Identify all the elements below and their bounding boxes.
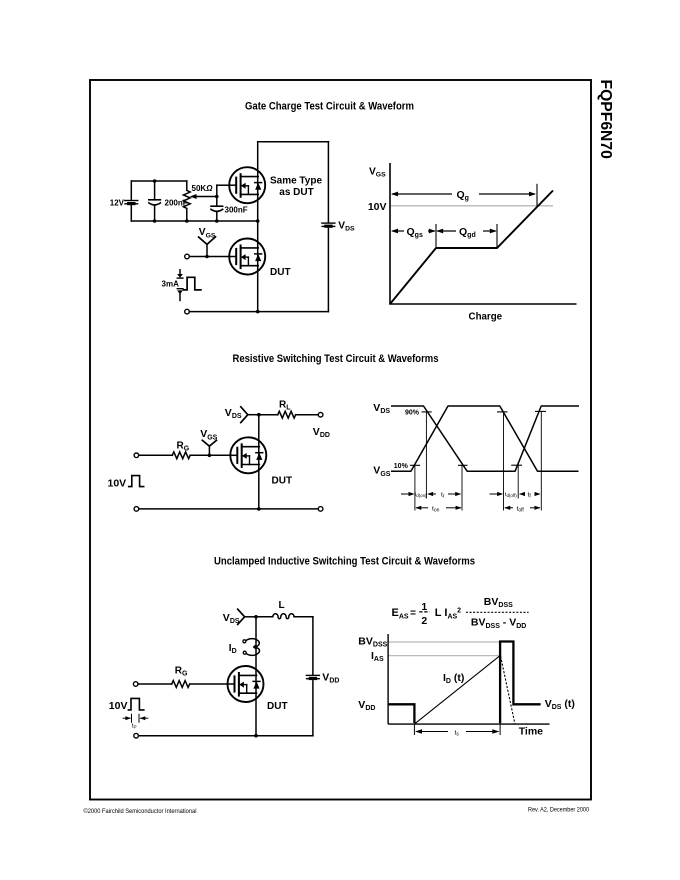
resistor RL xyxy=(278,411,296,418)
transistor M3 DUT xyxy=(230,437,266,473)
wire 300nF branch lower xyxy=(216,212,218,221)
probe VDS antenna xyxy=(241,407,248,423)
svg-text:VDD: VDD xyxy=(322,671,339,684)
terminal bottom left xyxy=(134,507,139,512)
probe VDS antenna xyxy=(238,609,245,624)
axis X xyxy=(389,303,576,305)
battery V1 12V xyxy=(125,201,138,206)
svg-text:ID: ID xyxy=(229,643,237,655)
svg-text:1: 1 xyxy=(421,601,427,613)
svg-text:10V: 10V xyxy=(109,700,128,712)
svg-text:VDS: VDS xyxy=(225,407,242,420)
arrow tf xyxy=(520,493,525,495)
svg-text:VDS: VDS xyxy=(223,612,240,625)
marker line m6 xyxy=(540,411,542,510)
svg-text:Rev. A2, December 2000: Rev. A2, December 2000 xyxy=(528,807,589,814)
node top of 200nF xyxy=(153,179,157,183)
tick 10pc left xyxy=(410,464,420,466)
svg-text:RG: RG xyxy=(175,666,188,678)
waveform 10V gate pulse xyxy=(128,698,143,710)
node drain top xyxy=(254,615,258,619)
curve ID ramp xyxy=(414,656,500,725)
battery V3 VDD xyxy=(306,675,319,680)
node drain xyxy=(257,413,261,417)
current marker top arrow xyxy=(179,270,181,275)
wire gate DUT xyxy=(189,256,229,258)
svg-text:Qgd: Qgd xyxy=(459,226,476,239)
svg-text:VDD: VDD xyxy=(313,426,330,439)
pot wiper arrow xyxy=(190,194,197,199)
capacitor C1 200nF xyxy=(149,200,161,205)
waveform 3mA gate pulse xyxy=(183,277,201,290)
svg-text:VDS: VDS xyxy=(338,220,355,232)
node bus bottom xyxy=(256,310,260,314)
svg-text:VDD: VDD xyxy=(358,699,375,712)
wire drain bus xyxy=(257,142,259,312)
arrow tp left xyxy=(123,717,130,719)
page frame xyxy=(90,80,591,800)
terminal gate input xyxy=(134,453,139,458)
tick 90pc left xyxy=(422,411,432,413)
wire 300nF branch upper xyxy=(216,197,218,207)
svg-text:as DUT: as DUT xyxy=(279,187,313,198)
tick Qgs xyxy=(435,224,437,247)
axis Y xyxy=(387,634,389,724)
svg-text:tf: tf xyxy=(528,492,532,500)
wire 12V branch upper xyxy=(130,181,132,200)
svg-text:VDS: VDS xyxy=(373,402,390,415)
node bottom rail to bus xyxy=(256,219,260,223)
axis X xyxy=(388,723,549,725)
node bottom pot xyxy=(185,219,189,223)
trace VDS top1 xyxy=(391,406,579,471)
svg-text:VGS: VGS xyxy=(369,166,386,178)
svg-text:L IAS2: L IAS2 xyxy=(435,607,461,620)
gridline 10V gray xyxy=(390,205,553,207)
wire top rail to VDS branch xyxy=(258,141,329,143)
probe VGS antenna xyxy=(199,237,216,245)
svg-text:td(off): td(off) xyxy=(505,492,517,498)
wire 200nF branch upper xyxy=(154,181,156,200)
transistor M1 Same Type as DUT xyxy=(229,167,265,203)
wire bottom rail xyxy=(138,735,313,737)
terminal VDD xyxy=(318,412,323,417)
node bus bottom xyxy=(257,507,261,511)
trace VDS thick xyxy=(388,704,414,723)
wire RG to gate xyxy=(190,683,228,685)
tick Qgd xyxy=(496,224,498,247)
svg-text:Charge: Charge xyxy=(469,311,503,323)
terminal gate xyxy=(185,254,190,259)
svg-text:L: L xyxy=(279,600,285,611)
probe ID current loop xyxy=(245,639,259,647)
gridline BVDSS gray xyxy=(388,641,500,643)
arrow tr xyxy=(428,493,436,495)
wire right branch lower xyxy=(312,681,314,736)
svg-text:Same Type: Same Type xyxy=(270,176,322,187)
tick tp right xyxy=(138,714,140,722)
wire bottom rail xyxy=(139,508,319,510)
arrow into td(on) xyxy=(401,493,414,495)
node bus bottom xyxy=(254,734,258,738)
wire drain bus xyxy=(258,415,260,509)
tick Qg end xyxy=(536,184,538,206)
svg-text:DUT: DUT xyxy=(272,476,293,487)
curve ID fall dashed xyxy=(501,656,515,724)
node wiper corner xyxy=(215,195,219,199)
svg-text:ID (t): ID (t) xyxy=(443,672,464,685)
node bottom 200nF xyxy=(153,219,157,223)
svg-text:IAS: IAS xyxy=(371,650,384,663)
svg-text:Gate Charge Test Circuit & Wav: Gate Charge Test Circuit & Waveform xyxy=(245,101,414,113)
arrow Qg xyxy=(392,193,452,195)
svg-text:EAS=: EAS= xyxy=(392,607,417,620)
svg-text:90%: 90% xyxy=(405,410,420,417)
tick tp left xyxy=(131,714,133,722)
wire gate input to RG xyxy=(139,454,173,456)
marker ts right xyxy=(499,656,501,735)
wire RL to VDD terminal xyxy=(296,414,319,416)
svg-text:Qg: Qg xyxy=(457,189,469,202)
arrow Qgs xyxy=(392,230,404,232)
svg-text:ts: ts xyxy=(455,730,460,738)
waveform 10V gate pulse xyxy=(129,476,144,487)
terminal bottom left xyxy=(134,733,139,738)
wire VDS branch upper xyxy=(327,142,329,223)
arrow tp right xyxy=(141,717,148,719)
svg-text:BVDSS: BVDSS xyxy=(484,596,513,609)
wire node to inductor xyxy=(256,616,273,618)
arrow into td(off) xyxy=(490,493,503,495)
tick 10pc mid xyxy=(458,464,468,466)
trace VGS xyxy=(391,406,579,471)
svg-text:VDS (t): VDS (t) xyxy=(545,698,575,711)
gridline IAS gray xyxy=(388,655,500,657)
svg-text:©2000 Fairchild Semiconductor: ©2000 Fairchild Semiconductor Internatio… xyxy=(84,808,197,815)
svg-text:RG: RG xyxy=(177,441,190,453)
arrow Qgd xyxy=(437,230,456,232)
svg-text:BVDSS: BVDSS xyxy=(358,636,387,649)
wire RG to gate xyxy=(190,454,230,456)
wire inductor to right branch xyxy=(294,616,313,618)
svg-text:FQPF6N70: FQPF6N70 xyxy=(597,80,614,160)
svg-text:toff: toff xyxy=(517,506,525,514)
svg-text:BVDSS - VDD: BVDSS - VDD xyxy=(471,617,526,630)
equation fraction line dashed xyxy=(466,611,529,613)
wire corner up xyxy=(216,185,218,196)
svg-text:RL: RL xyxy=(279,400,291,412)
svg-text:Time: Time xyxy=(519,726,543,738)
svg-text:Qgs: Qgs xyxy=(407,226,423,239)
wire wiper to corner xyxy=(196,196,217,198)
wire 200nF branch lower xyxy=(154,205,156,221)
svg-text:DUT: DUT xyxy=(270,267,291,278)
svg-text:50KΩ: 50KΩ xyxy=(192,184,214,193)
marker line m1 xyxy=(414,465,416,510)
tick 90pc mid xyxy=(497,411,508,413)
inductor L xyxy=(273,614,294,619)
resistor RG xyxy=(172,452,190,459)
svg-text:td(on): td(on) xyxy=(415,492,427,498)
marker line m4 xyxy=(503,412,505,511)
wire bottom return xyxy=(187,311,328,313)
node VGS tap xyxy=(205,255,209,259)
battery V2 VDS xyxy=(322,223,335,228)
node VGS tap xyxy=(208,454,212,458)
wire top rail left block xyxy=(131,180,187,182)
wire 12V branch lower xyxy=(130,206,132,221)
wire VDS branch lower xyxy=(327,228,329,311)
marker line m2 xyxy=(425,412,427,499)
terminal bottom left xyxy=(185,309,190,314)
terminal bottom right xyxy=(318,507,323,512)
wire gate input to RG xyxy=(138,683,172,685)
curve gate charge xyxy=(390,191,553,305)
node bottom 300nF xyxy=(215,219,219,223)
wire corner to gate M1 xyxy=(217,184,229,186)
transistor M2 DUT xyxy=(229,239,265,275)
arrow ton xyxy=(416,507,428,509)
axis Y xyxy=(389,163,391,304)
svg-text:VGS: VGS xyxy=(200,428,217,441)
svg-text:12V: 12V xyxy=(110,199,125,208)
svg-text:ton: ton xyxy=(432,506,440,514)
arrow ts xyxy=(416,731,448,733)
wire right branch upper xyxy=(312,617,314,675)
svg-text:tr: tr xyxy=(441,492,445,500)
svg-text:10V: 10V xyxy=(108,477,127,489)
wire bottom rail left block xyxy=(131,220,257,222)
wire drain bus xyxy=(255,617,257,736)
terminal gate input xyxy=(133,682,138,687)
marker line m3 xyxy=(461,465,463,510)
tick 10pc right xyxy=(511,464,522,466)
svg-text:Unclamped Inductive Switching: Unclamped Inductive Switching Test Circu… xyxy=(214,556,475,568)
svg-text:3mA: 3mA xyxy=(162,280,180,289)
probe VGS antenna xyxy=(202,440,216,446)
resistor RG xyxy=(172,681,190,688)
svg-text:Resistive Switching Test Circu: Resistive Switching Test Circuit & Wavef… xyxy=(233,353,439,365)
svg-text:10%: 10% xyxy=(394,463,409,470)
marker ts left xyxy=(413,724,415,735)
wire pot bottom lead xyxy=(186,209,188,221)
marker line m5 xyxy=(517,465,519,498)
svg-text:tP: tP xyxy=(132,724,137,730)
svg-text:2: 2 xyxy=(421,615,427,627)
wire drain to RL xyxy=(259,414,278,416)
tick 90pc right xyxy=(535,410,546,412)
svg-text:DUT: DUT xyxy=(267,701,288,712)
capacitor C2 300nF xyxy=(211,206,223,211)
svg-text:10V: 10V xyxy=(368,201,387,213)
svg-text:300nF: 300nF xyxy=(225,206,248,215)
current marker bottom arrow xyxy=(177,288,184,289)
potentiometer R1 50K xyxy=(183,190,190,208)
svg-text:VGS: VGS xyxy=(199,227,216,239)
arrow toff xyxy=(505,507,513,509)
wire pot top lead xyxy=(186,181,188,190)
svg-text:VGS: VGS xyxy=(373,465,390,478)
transistor M4 DUT xyxy=(228,666,264,702)
